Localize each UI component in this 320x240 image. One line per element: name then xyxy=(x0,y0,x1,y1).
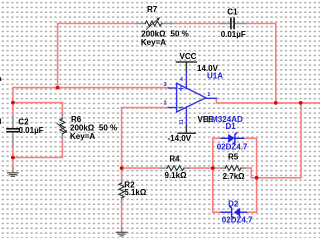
junction output/feedback xyxy=(299,101,303,105)
junction diode loop right xyxy=(255,176,259,180)
wire C2 node to R6 top xyxy=(13,103,63,114)
svg-text:02DZ4.7: 02DZ4.7 xyxy=(222,216,253,225)
svg-text:D1: D1 xyxy=(226,122,237,131)
ground under R2 xyxy=(116,228,126,236)
svg-text:0.01µF: 0.01µF xyxy=(19,126,44,135)
junction R2/R4 node xyxy=(120,166,124,170)
svg-text:Key=A: Key=A xyxy=(141,38,166,47)
left edge artifact dash 2 xyxy=(0,119,1,125)
junction output/top loop xyxy=(274,101,278,105)
wire opamp output to right edge xyxy=(216,98,320,103)
resistor R5 xyxy=(221,166,245,171)
resistor R2 xyxy=(119,180,124,202)
wire opamp + input line xyxy=(13,87,169,89)
wire R6 bottom to ground node xyxy=(13,139,63,158)
svg-text:U1A: U1A xyxy=(207,72,223,81)
capacitor C1 on top wire xyxy=(222,18,246,28)
resistor R4 xyxy=(161,166,189,171)
svg-text:D2: D2 xyxy=(228,200,239,209)
svg-text:50 %: 50 % xyxy=(99,124,117,133)
junction ground node left xyxy=(11,156,15,160)
svg-text:02DZ4.7: 02DZ4.7 xyxy=(217,143,248,152)
VCC power symbol xyxy=(176,62,196,89)
wire top net: C2/R7 top loop xyxy=(58,24,276,103)
wire R4 right to R5 left xyxy=(189,167,221,169)
svg-text:9.1kΩ: 9.1kΩ xyxy=(165,171,188,180)
svg-text:5.1kΩ: 5.1kΩ xyxy=(124,188,147,197)
ground under C2 xyxy=(8,168,18,177)
wire D1 row xyxy=(213,137,257,139)
svg-text:R6: R6 xyxy=(71,115,82,124)
zener diode D1 xyxy=(221,133,243,144)
wire C2 bottom to ground node xyxy=(12,146,14,168)
svg-text:0.01µF: 0.01µF xyxy=(221,30,246,39)
svg-text:1: 1 xyxy=(207,92,210,98)
wire R2 bottom to ground xyxy=(121,202,123,228)
svg-text:VCC: VCC xyxy=(180,52,197,61)
svg-text:3: 3 xyxy=(164,82,167,88)
svg-text:50 %: 50 % xyxy=(171,30,189,39)
capacitor C2 xyxy=(7,116,18,146)
svg-text:2: 2 xyxy=(164,100,167,106)
svg-text:4: 4 xyxy=(180,77,183,83)
wire - input down to R2/R4 node xyxy=(121,108,123,180)
wire opamp - input line xyxy=(122,107,169,109)
svg-text:R4: R4 xyxy=(169,154,180,163)
wire diode loop right vertical xyxy=(256,138,258,212)
left edge artifact dash 1 xyxy=(0,77,1,81)
resistor R6 potentiometer xyxy=(57,114,68,139)
VEE power symbol xyxy=(178,107,195,133)
wire R5 right step to feedback vertical xyxy=(245,103,301,178)
junction + line xyxy=(56,86,60,90)
svg-text:R5: R5 xyxy=(228,152,239,161)
zener diode D2 xyxy=(221,207,246,218)
wire D2 row xyxy=(213,211,257,213)
wire R4 line left xyxy=(122,167,162,169)
junction C2 top node xyxy=(11,101,15,105)
svg-text:2.7kΩ: 2.7kΩ xyxy=(223,172,246,181)
junction diode loop left xyxy=(211,166,215,170)
svg-text:11: 11 xyxy=(179,119,185,125)
svg-text:Key=A: Key=A xyxy=(70,132,95,141)
op-amp U1A triangle xyxy=(169,83,217,112)
svg-text:-14.0V: -14.0V xyxy=(168,134,192,143)
wire diode loop left vertical xyxy=(212,138,214,212)
resistor R7 potentiometer on top wire xyxy=(137,17,172,29)
svg-text:C1: C1 xyxy=(227,8,238,17)
wire C2 top vertical xyxy=(12,88,14,117)
svg-text:R7: R7 xyxy=(147,5,158,14)
